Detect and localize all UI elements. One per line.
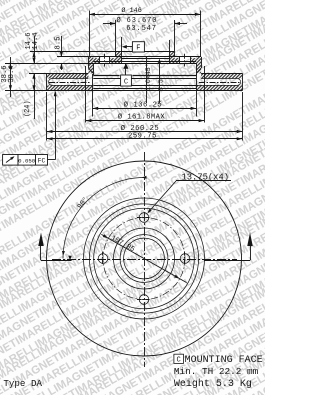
svg-text:Min. TH 22.2 mm: Min. TH 22.2 mm (174, 366, 259, 377)
svg-text:38.4: 38.4 (8, 65, 16, 82)
svg-text:Type DA: Type DA (3, 378, 42, 389)
svg-text:Weight 5.3 Kg: Weight 5.3 Kg (174, 378, 252, 390)
svg-text:(24): (24) (24, 100, 32, 117)
svg-text:Ø 146: Ø 146 (121, 6, 141, 15)
svg-text:8.5: 8.5 (54, 37, 62, 50)
svg-text:F: F (136, 45, 140, 53)
svg-text:14.4: 14.4 (32, 32, 40, 49)
svg-text:FC: FC (38, 158, 46, 165)
svg-text:259.75: 259.75 (128, 132, 157, 140)
svg-text:0.050: 0.050 (18, 158, 36, 165)
svg-text:63.547: 63.547 (126, 25, 157, 33)
svg-text:3.5: 3.5 (157, 79, 164, 91)
svg-text:1.0x45°: 1.0x45° (144, 63, 152, 91)
svg-text:C: C (177, 357, 182, 365)
svg-text:C: C (124, 79, 128, 87)
svg-text:MOUNTING FACE: MOUNTING FACE (185, 355, 263, 366)
